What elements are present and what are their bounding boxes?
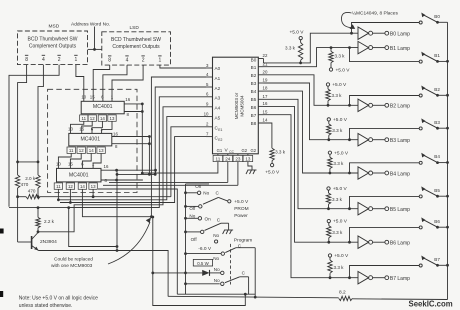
svg-text:1: 1 — [111, 94, 114, 99]
svg-text:LSD: LSD — [130, 25, 140, 31]
svg-text:23: 23 — [235, 157, 241, 162]
resistor 470 horizontal — [26, 195, 40, 199]
inverter B6 quarter MC14049 — [358, 236, 369, 248]
wire U2 pin8 stub — [112, 143, 150, 145]
switch S4 program lower — [214, 270, 249, 294]
svg-text:B2 Lamp: B2 Lamp — [390, 104, 410, 110]
svg-text:G1: G1 — [217, 148, 223, 153]
svg-text:2N3904: 2N3904 — [40, 239, 57, 245]
svg-text:4: 4 — [206, 72, 209, 77]
svg-text:+5.0 V: +5.0 V — [234, 199, 249, 205]
wire B6 to switch — [348, 241, 351, 244]
svg-text:MCM5004: MCM5004 — [240, 95, 245, 117]
svg-text:+5.0 V: +5.0 V — [265, 170, 280, 176]
wire MSD 2-bar drop — [9, 65, 59, 207]
wire U1-U2 interconnects — [71, 121, 113, 133]
svg-text:A3: A3 — [215, 96, 221, 101]
svg-text:B6: B6 — [434, 219, 440, 224]
svg-text:B3 Lamp: B3 Lamp — [390, 138, 410, 144]
terminal +5V B2 — [326, 83, 329, 86]
wire A2 feed — [155, 87, 206, 174]
resistor 2.0k — [36, 175, 40, 188]
svg-text:Complement Outputs: Complement Outputs — [112, 44, 160, 50]
svg-text:B1 Lamp: B1 Lamp — [390, 46, 410, 52]
svg-text:10: 10 — [81, 94, 86, 99]
scan mark 2 — [0, 291, 3, 297]
svg-text:MC4001: MC4001 — [69, 172, 89, 178]
arrow to gate bus — [108, 222, 150, 264]
svg-text:14: 14 — [263, 118, 268, 123]
svg-text:No: No — [214, 267, 220, 272]
svg-text:24: 24 — [225, 157, 231, 162]
svg-text:B7: B7 — [434, 257, 440, 262]
inverter B4 quarter MC14049 — [358, 167, 369, 179]
svg-text:4: 4 — [126, 58, 129, 64]
svg-text:1: 1 — [159, 58, 162, 64]
svg-text:11: 11 — [82, 116, 87, 121]
wire B5 to switch — [348, 207, 351, 210]
switch B0 — [419, 21, 422, 24]
wire bus PROM pin11 — [142, 172, 218, 174]
svg-text:12: 12 — [68, 184, 73, 189]
wire U2-U3 interconnects — [58, 153, 101, 168]
svg-text:11: 11 — [69, 148, 74, 153]
svg-text:13: 13 — [245, 157, 251, 162]
svg-text:B7: B7 — [251, 113, 257, 118]
inverter B3 quarter MC14049 — [358, 134, 369, 146]
svg-text:Note: Use +5.0 V on all logic: Note: Use +5.0 V on all logic device — [19, 296, 98, 302]
wire A5 feed — [58, 117, 206, 200]
switch B5 — [419, 195, 422, 198]
inverter B0 quarter MC14049 — [358, 27, 369, 39]
svg-text:BCD Thumbwheel SW: BCD Thumbwheel SW — [111, 37, 161, 43]
wire B1 to switch — [348, 46, 351, 49]
svg-text:with one MCM9003: with one MCM9003 — [51, 263, 93, 269]
svg-text:15: 15 — [90, 94, 95, 99]
svg-text:+5.0 V: +5.0 V — [333, 117, 348, 123]
svg-text:6: 6 — [101, 94, 104, 99]
wire bottom run with 8.2 resistor — [168, 296, 339, 298]
wire bus PROM pin24 — [109, 181, 228, 183]
terminal +5V B6 — [327, 219, 330, 222]
wire LSD 1-bar drop to A0 — [160, 65, 206, 68]
svg-text:No: No — [189, 213, 195, 218]
switch B3 — [419, 127, 422, 130]
svg-text:3.3 k: 3.3 k — [285, 46, 296, 51]
svg-text:+5.0 V: +5.0 V — [333, 219, 348, 225]
wire MSD 4-bar drop — [38, 65, 43, 175]
svg-text:unless stated otherwise.: unless stated otherwise. — [19, 303, 73, 309]
switch B6 — [419, 226, 422, 229]
svg-text:B6: B6 — [251, 105, 257, 110]
ground panel — [223, 230, 234, 234]
svg-text:B6 Lamp: B6 Lamp — [390, 241, 410, 247]
svg-text:BCD Thumbwheel SW: BCD Thumbwheel SW — [28, 36, 78, 42]
PROM bottom pins — [213, 154, 253, 162]
svg-text:14: 14 — [100, 116, 105, 121]
svg-text:B2: B2 — [251, 73, 257, 78]
svg-text:B2: B2 — [434, 87, 440, 92]
wire U1 pin16 stub — [124, 103, 142, 105]
svg-text:Program: Program — [234, 237, 252, 243]
wire U3 pin12 drop — [69, 189, 71, 202]
wire B7 to switch — [348, 276, 351, 279]
wire resistor top bus — [18, 161, 38, 163]
svg-text:E1: E1 — [218, 128, 222, 132]
svg-text:13: 13 — [91, 184, 96, 189]
svg-text:+5.0 V: +5.0 V — [333, 186, 348, 192]
svg-text:A5: A5 — [215, 115, 221, 120]
wire gate output vertical C — [155, 170, 157, 174]
svg-text:MCM5003 or: MCM5003 or — [234, 92, 239, 119]
svg-text:5: 5 — [206, 82, 209, 87]
svg-text:13: 13 — [99, 148, 104, 153]
wire loop spur to diode row — [153, 272, 186, 274]
svg-text:2: 2 — [206, 122, 209, 127]
svg-text:Complement Outputs: Complement Outputs — [29, 43, 77, 49]
svg-text:C: C — [242, 270, 246, 275]
inverter B7 quarter MC14049 — [358, 272, 369, 284]
terminal +5V PROM power — [228, 200, 231, 203]
svg-text:8: 8 — [115, 144, 118, 149]
svg-text:14: 14 — [80, 184, 85, 189]
svg-text:12: 12 — [90, 116, 95, 121]
resistor 3.3k B1 — [330, 46, 333, 49]
resistor 3.3k B4 — [329, 155, 331, 158]
svg-text:+5.0 V: +5.0 V — [332, 82, 347, 88]
wire U3 pin8 stub — [101, 179, 143, 181]
svg-text:B0: B0 — [434, 14, 440, 19]
wire emitter run — [39, 251, 169, 297]
svg-text:19: 19 — [263, 78, 268, 83]
svg-text:470: 470 — [28, 189, 36, 194]
svg-text:3.3 k: 3.3 k — [335, 54, 346, 59]
svg-text:16: 16 — [113, 131, 118, 136]
svg-text:3.3 k: 3.3 k — [275, 150, 286, 155]
wire bottom nested loop — [153, 217, 246, 306]
svg-text:3.3 k: 3.3 k — [332, 230, 343, 235]
svg-text:470: 470 — [21, 182, 29, 187]
wire B1 route — [264, 48, 359, 67]
box 0.5W — [193, 259, 212, 266]
svg-text:CC: CC — [229, 150, 234, 154]
svg-text:B4 Lamp: B4 Lamp — [390, 171, 410, 177]
svg-text:+5.0 V: +5.0 V — [336, 68, 351, 74]
wire 470 bottom junction — [17, 188, 19, 242]
svg-text:3.3 k: 3.3 k — [334, 265, 345, 270]
svg-text:B1: B1 — [434, 53, 440, 58]
svg-text:MSD: MSD — [49, 24, 60, 30]
terminal +5V B3 — [327, 118, 330, 121]
svg-text:16: 16 — [125, 97, 130, 102]
wire B2 route — [264, 75, 359, 106]
wire gate output vertical B — [148, 137, 150, 175]
svg-text:6: 6 — [206, 92, 209, 97]
svg-text:+5.0 V: +5.0 V — [334, 150, 349, 156]
svg-text:8: 8 — [25, 57, 28, 63]
svg-text:C: C — [217, 217, 221, 222]
svg-text:8.2: 8.2 — [339, 289, 346, 295]
svg-text:Power: Power — [234, 213, 248, 219]
svg-text:B1: B1 — [251, 65, 257, 70]
terminal +5V B7 — [328, 254, 331, 257]
wire U2 pin16 stub — [112, 136, 150, 138]
svg-text:3: 3 — [206, 63, 209, 68]
svg-text:No: No — [213, 256, 219, 261]
terminal +5V B5 — [327, 187, 330, 190]
svg-text:B5 Lamp: B5 Lamp — [390, 207, 410, 213]
svg-text:3.3 k: 3.3 k — [332, 197, 343, 202]
svg-text:B5: B5 — [251, 97, 257, 102]
wire panel left rail — [185, 184, 187, 294]
inverter B1 quarter MC14049 — [358, 41, 369, 53]
wire panel row stubs — [186, 192, 198, 194]
svg-text:On: On — [195, 184, 202, 189]
svg-text:11: 11 — [56, 184, 61, 189]
svg-text:13: 13 — [110, 116, 115, 121]
svg-text:No: No — [214, 278, 220, 283]
wire PROM pin13 to ground — [248, 162, 252, 170]
svg-text:20: 20 — [263, 69, 268, 74]
svg-text:11: 11 — [216, 157, 221, 162]
svg-text:A2: A2 — [215, 86, 221, 91]
svg-text:2.0 k: 2.0 k — [25, 176, 36, 181]
svg-text:B4: B4 — [434, 154, 440, 159]
wire bus PROM pin23 — [103, 184, 238, 186]
wire gate bus horizontal — [117, 173, 156, 175]
wire B3 to switch — [348, 138, 351, 141]
wire A3 feed — [69, 97, 206, 247]
wire CE1 feed — [171, 127, 206, 197]
svg-text:8: 8 — [108, 58, 111, 64]
svg-text:V: V — [225, 148, 229, 154]
wire A4 feed — [38, 107, 206, 232]
svg-text:B8: B8 — [251, 121, 257, 126]
resistor 3.3k B3 — [328, 121, 330, 124]
wire B4 to switch — [348, 172, 351, 175]
transistor Q1 2N3904 — [18, 233, 58, 251]
scan mark 1 — [0, 229, 4, 234]
svg-text:On: On — [205, 216, 212, 221]
switch B7 — [419, 264, 422, 267]
junction dots misc — [93, 48, 95, 50]
svg-text:B4: B4 — [251, 89, 257, 94]
wire x9 rail to A3 bus — [9, 207, 159, 209]
wire B0 to switch — [350, 32, 353, 35]
svg-text:Could be replaced: Could be replaced — [54, 257, 93, 263]
terminal +5V B0 — [299, 36, 302, 39]
svg-text:15: 15 — [263, 109, 268, 114]
svg-text:B0: B0 — [251, 57, 257, 62]
svg-text:¼MC14049, 8 Places: ¼MC14049, 8 Places — [352, 11, 398, 17]
svg-text:A1: A1 — [215, 76, 221, 81]
wire B3 route — [264, 83, 359, 140]
resistor 3.3k B5 — [328, 190, 330, 193]
wire MSD 1-bar drop — [76, 65, 84, 102]
terminal +5V B8 — [270, 163, 273, 166]
svg-text:14: 14 — [89, 148, 94, 153]
resistor 3.3k B0 — [298, 43, 302, 61]
svg-text:MC4001: MC4001 — [93, 104, 113, 110]
dashed outline MC4001 group — [48, 89, 137, 192]
svg-text:8: 8 — [127, 112, 130, 117]
PROM left pin stubs — [204, 63, 213, 137]
wire B0 route — [264, 33, 359, 63]
switch S2 ground select — [184, 216, 229, 242]
svg-text:+5.0 V: +5.0 V — [334, 253, 349, 259]
wire PROM pin24 route — [227, 162, 229, 183]
svg-text:A4: A4 — [215, 106, 221, 111]
svg-text:No: No — [203, 191, 209, 196]
terminal +5V B4 — [328, 151, 331, 154]
switch B2 — [419, 94, 422, 97]
svg-text:7: 7 — [206, 131, 209, 136]
svg-text:17: 17 — [263, 94, 268, 99]
svg-text:G2: G2 — [251, 148, 257, 153]
svg-text:Off: Off — [189, 206, 196, 211]
svg-text:B3: B3 — [434, 120, 440, 125]
wire MSD 8-bar drop — [18, 65, 27, 162]
svg-text:C: C — [216, 190, 220, 195]
diode D1 — [186, 272, 203, 274]
svg-text:3.3 k: 3.3 k — [333, 161, 344, 166]
svg-text:12: 12 — [79, 148, 84, 153]
wire right bus — [447, 22, 449, 299]
resistor 470 left — [15, 175, 19, 188]
thumbwheel switch box LSD — [102, 32, 171, 65]
wire U3 pin16 stub — [101, 169, 156, 171]
svg-text:B0 Lamp: B0 Lamp — [390, 32, 410, 38]
svg-text:18: 18 — [263, 86, 268, 91]
svg-text:G2: G2 — [242, 148, 248, 153]
svg-text:2: 2 — [58, 57, 61, 63]
thumbwheel switch box MSD — [18, 31, 88, 65]
svg-text:3.3 k: 3.3 k — [332, 128, 343, 133]
wire A1 feed — [82, 77, 206, 217]
switch B4 — [419, 161, 422, 164]
wire PROM pin23 route — [237, 162, 239, 186]
wire B5 route — [264, 99, 359, 208]
ground PROM pin13 — [246, 170, 257, 174]
svg-text:B7 Lamp: B7 Lamp — [390, 276, 410, 282]
svg-text:16: 16 — [104, 164, 109, 169]
resistor 3.3k B6 — [328, 223, 330, 226]
wire 2.0k bottom — [37, 188, 39, 197]
wire B4 route — [264, 91, 359, 173]
wire gate output vertical A — [141, 104, 143, 173]
resistor 3.3k B7 — [329, 257, 331, 260]
wire bus h189 — [98, 189, 177, 294]
wire B2 to switch — [348, 104, 351, 107]
svg-text:22: 22 — [263, 53, 268, 58]
svg-text:4: 4 — [42, 57, 45, 63]
gate chip U3 MC4001 — [54, 161, 109, 189]
resistor 3.3k B8 — [270, 148, 274, 160]
svg-text:9: 9 — [206, 102, 209, 107]
svg-text:2: 2 — [142, 58, 145, 64]
wire U1 pin8 stub — [124, 111, 142, 113]
svg-text:B3: B3 — [251, 81, 257, 86]
PROM chip MCM5003/MCM5004 — [213, 57, 259, 154]
gate chip U1 MC4001 — [80, 94, 131, 121]
switch S1 PROM power — [184, 184, 227, 218]
wire B8 route — [258, 123, 272, 148]
resistor 2.2k — [37, 208, 39, 218]
gate chip U2 MC4001 — [67, 126, 118, 153]
svg-text:MC4001: MC4001 — [80, 136, 100, 142]
terminal +5V B1 — [329, 68, 332, 71]
svg-text:10: 10 — [204, 111, 209, 116]
svg-text:A0: A0 — [215, 66, 221, 71]
wire U3 pin13 drop — [92, 189, 94, 196]
switch S3 program upper — [213, 244, 255, 298]
wire LSD 4-bar drop — [103, 65, 127, 101]
switch B1 — [419, 60, 422, 63]
svg-text:2.2 k: 2.2 k — [44, 219, 55, 224]
svg-text:-6.0 V: -6.0 V — [198, 246, 212, 252]
wire PROM pin11 route — [142, 162, 218, 174]
PROM right pin stubs — [258, 53, 268, 123]
svg-text:E2: E2 — [218, 138, 222, 142]
wire LSD 2-bar drop — [112, 65, 143, 101]
svg-text:16: 16 — [263, 101, 268, 106]
svg-text:Off: Off — [191, 237, 198, 242]
wire address-word stem — [94, 27, 96, 50]
svg-text:No: No — [213, 233, 219, 238]
svg-text:3.3 k: 3.3 k — [332, 93, 343, 98]
inverter B5 quarter MC14049 — [358, 203, 369, 215]
svg-text:Address Word No.: Address Word No. — [71, 22, 110, 28]
svg-text:1: 1 — [75, 57, 78, 63]
resistor 3.3k B2 — [327, 86, 329, 89]
svg-text:0.5 W: 0.5 W — [197, 261, 209, 266]
svg-text:PROM: PROM — [234, 206, 248, 212]
wire panel bottom edge — [177, 293, 255, 295]
svg-text:+5.0 V: +5.0 V — [290, 30, 305, 36]
wire B7 route — [264, 115, 359, 278]
wire U3 stub vertical — [116, 170, 118, 250]
wire U3 pin11 drop — [57, 189, 59, 200]
svg-text:SeekIC.com: SeekIC.com — [409, 299, 453, 308]
wire B6 route — [264, 106, 359, 242]
inverter B2 quarter MC14049 — [358, 99, 369, 111]
dashed program link — [230, 244, 232, 285]
wire LSD 8-bar drop — [93, 65, 110, 101]
wire CE2 feed — [60, 137, 206, 203]
svg-text:B5: B5 — [434, 188, 440, 193]
